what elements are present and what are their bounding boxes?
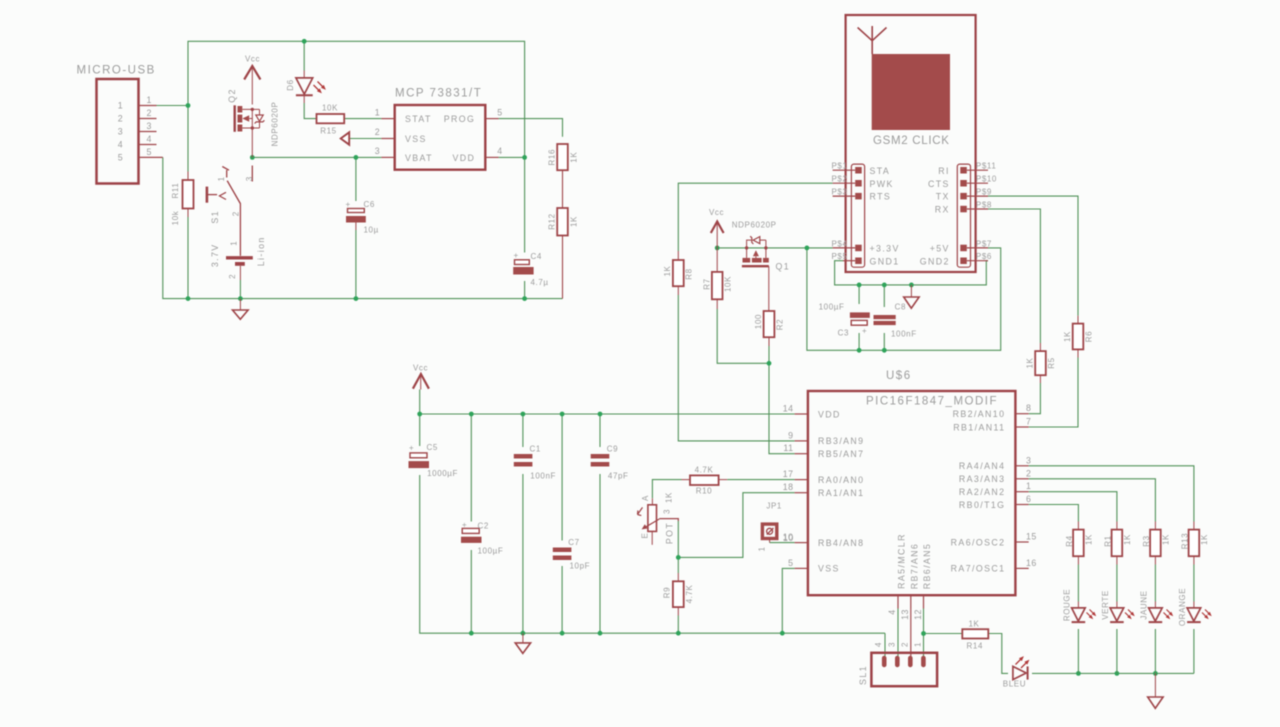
wire VSS arrow to MCP pin2 <box>349 138 381 140</box>
pin 14 VDD <box>795 413 808 415</box>
pin stub P$5 <box>843 260 855 262</box>
svg-text:11: 11 <box>783 443 793 453</box>
wire R4 to ROUGE <box>1077 565 1079 602</box>
svg-text:RB7/AN6: RB7/AN6 <box>910 543 920 589</box>
node junction R11 bottom <box>186 296 191 301</box>
LED D6 <box>286 71 326 104</box>
LED ROUGE <box>1063 589 1097 622</box>
svg-text:3: 3 <box>118 127 123 137</box>
resistor R7 10K <box>703 248 733 309</box>
capacitor C5 1000uF <box>409 443 459 478</box>
svg-text:MCP 73831/T: MCP 73831/T <box>395 88 482 100</box>
wire R9 to rail <box>677 616 679 634</box>
wire C2 lower lead <box>470 550 472 633</box>
node junction gnd symbol <box>909 283 914 288</box>
svg-text:100nF: 100nF <box>891 329 917 338</box>
svg-text:2: 2 <box>231 211 240 216</box>
svg-text:10k: 10k <box>171 210 180 225</box>
pin 6 RB0/T1G <box>1015 504 1028 506</box>
node junction rail VERTE <box>1115 671 1120 676</box>
svg-text:C9: C9 <box>607 445 618 454</box>
svg-text:VDD: VDD <box>453 153 476 163</box>
wire PWK net to PIC RB3 <box>678 183 832 251</box>
svg-text:P$1: P$1 <box>831 162 847 171</box>
connector right header <box>957 164 970 267</box>
svg-text:100µF: 100µF <box>819 302 845 311</box>
svg-text:RB0/T1G: RB0/T1G <box>959 500 1005 510</box>
LED JAUNE <box>1140 590 1174 622</box>
wire pin3 to R13 <box>1029 466 1194 522</box>
wire node to R9 <box>677 557 679 573</box>
pin 16 RA7/OSC1 <box>1015 567 1028 569</box>
resistor R9 4.7K <box>663 573 694 616</box>
wire R6 to PIC pin7 <box>1029 358 1078 428</box>
svg-text:RA0/AN0: RA0/AN0 <box>818 475 864 485</box>
resistor R2 100 <box>754 311 785 346</box>
svg-text:R4: R4 <box>1065 535 1074 546</box>
resistor R5 1K <box>1026 343 1057 383</box>
svg-text:15: 15 <box>1026 532 1037 542</box>
svg-text:CTS: CTS <box>928 179 950 189</box>
pin 1 RA2/AN2 <box>1015 491 1028 493</box>
pin stub P$6 <box>967 260 988 262</box>
pin 8 RB2/AN10 <box>1015 413 1028 415</box>
svg-text:1K: 1K <box>1123 534 1132 545</box>
svg-text:1K: 1K <box>570 216 579 227</box>
svg-text:PIC16F1847_MODIF: PIC16F1847_MODIF <box>866 396 998 408</box>
resistor R12 1K <box>548 200 579 245</box>
svg-text:1K: 1K <box>1063 331 1072 342</box>
resistor R10 4.7K <box>682 466 728 496</box>
svg-text:PROG: PROG <box>444 114 476 124</box>
svg-text:1K: 1K <box>969 620 980 629</box>
wire rail corner to SL1 pad4 <box>884 633 886 656</box>
svg-text:R5: R5 <box>1047 357 1056 368</box>
svg-text:1000µF: 1000µF <box>427 469 458 478</box>
svg-text:4: 4 <box>497 146 502 156</box>
power Vcc top-left <box>244 55 260 105</box>
svg-text:12: 12 <box>913 609 923 620</box>
node junction grail R9 <box>676 631 681 636</box>
svg-text:3: 3 <box>663 509 672 514</box>
wire wiper node to pin18 <box>678 493 794 558</box>
svg-text:10: 10 <box>783 532 794 542</box>
wire C3 bottom lead <box>858 333 860 350</box>
svg-text:Vcc: Vcc <box>709 208 724 217</box>
svg-text:4: 4 <box>118 140 123 150</box>
pin stub P$9 <box>967 195 988 197</box>
pin 5 VSS <box>795 567 808 569</box>
svg-text:9: 9 <box>788 430 793 440</box>
wire R16-R12 link <box>562 170 564 208</box>
node junction pwr rail C8 <box>882 348 887 353</box>
wire R11 lower <box>187 217 189 299</box>
svg-text:10K: 10K <box>724 276 733 292</box>
ground sym GSM <box>904 285 919 308</box>
node junction grail C9 <box>598 631 603 636</box>
IC U2 MCP 73831/T <box>375 88 503 170</box>
svg-text:R13: R13 <box>1181 533 1190 549</box>
pin 18 RA1/AN1 <box>795 492 808 494</box>
pin stub P$10 <box>967 182 988 184</box>
node junction grail C1 <box>521 631 526 636</box>
wire C2 upper lead <box>470 414 472 522</box>
resistor R6 1K <box>1063 316 1094 358</box>
node junction rail C1 <box>521 412 526 417</box>
svg-text:1K: 1K <box>1161 534 1170 545</box>
svg-text:+: + <box>409 444 414 453</box>
node junction rail ROUGE <box>1076 671 1081 676</box>
svg-text:STAT: STAT <box>405 114 432 124</box>
svg-text:3: 3 <box>147 121 152 131</box>
svg-text:RI: RI <box>938 166 950 176</box>
resistor R4 1K <box>1065 522 1093 565</box>
node junction Q2 drain VBAT <box>250 155 255 160</box>
svg-text:3: 3 <box>245 176 254 181</box>
resistor R1 1K <box>1104 522 1132 565</box>
svg-text:3.7V: 3.7V <box>210 243 220 267</box>
svg-text:100µF: 100µF <box>478 547 504 556</box>
transistor Q2 NDP6020P <box>227 88 280 157</box>
svg-text:4.7K: 4.7K <box>695 466 714 475</box>
LED BLEU <box>1003 656 1030 688</box>
svg-text:47pF: 47pF <box>608 472 629 481</box>
pin stub P$3 <box>833 195 856 197</box>
svg-text:GND2: GND2 <box>920 256 950 266</box>
wire R10 to POT top <box>652 480 681 499</box>
wire LED cathode rail <box>1078 672 1194 674</box>
capacitor C9 47pF <box>591 445 629 481</box>
svg-text:RB5/AN7: RB5/AN7 <box>818 449 864 459</box>
svg-text:+: + <box>346 200 351 209</box>
wire C8 top lead <box>883 285 885 307</box>
svg-text:+5V: +5V <box>930 244 950 254</box>
svg-text:4: 4 <box>147 134 152 144</box>
wire VSS to rail <box>782 568 794 633</box>
capacitor C2 100uF <box>461 521 503 556</box>
LED ORANGE <box>1178 588 1212 626</box>
svg-text:TX: TX <box>936 192 950 202</box>
transistor Q1 NDP6020P <box>732 221 790 312</box>
svg-text:C1: C1 <box>530 445 541 454</box>
wire R5 to PIC pin8 <box>1029 383 1041 414</box>
wire Vcc to +3.3V rail <box>717 247 832 249</box>
svg-text:R2: R2 <box>776 319 785 330</box>
module GSM2 CLICK box <box>846 15 976 272</box>
pin 7 RB1/AN11 <box>1015 426 1028 428</box>
svg-text:8: 8 <box>1026 403 1031 413</box>
svg-text:Li-ion: Li-ion <box>256 236 266 266</box>
svg-text:RA5/MCLR: RA5/MCLR <box>897 533 907 589</box>
svg-text:P$9: P$9 <box>976 188 992 197</box>
svg-text:RA6/OSC2: RA6/OSC2 <box>951 537 1006 547</box>
connector SL1 <box>858 642 937 686</box>
svg-text:7: 7 <box>1026 417 1031 427</box>
battery 3.7V Li-ion <box>210 236 266 280</box>
wire GND1 path <box>835 261 988 285</box>
svg-text:+3.3V: +3.3V <box>870 244 900 254</box>
pin 11 RB5/AN7 <box>795 453 808 455</box>
wire D6 top branch <box>303 41 305 70</box>
svg-text:1: 1 <box>118 101 123 111</box>
svg-text:C2: C2 <box>478 522 489 531</box>
svg-text:P$2: P$2 <box>831 175 847 184</box>
wire RX to R5 <box>988 209 1040 343</box>
svg-text:R16: R16 <box>548 149 557 165</box>
LED VERTE <box>1101 590 1135 622</box>
wire battery to rail <box>239 280 241 299</box>
svg-text:ROUGE: ROUGE <box>1063 589 1072 621</box>
wire pin1 to R1 <box>1029 492 1117 522</box>
svg-text:RA2/AN2: RA2/AN2 <box>959 487 1005 497</box>
svg-text:4: 4 <box>874 642 883 647</box>
node junction grail C2 <box>469 631 474 636</box>
svg-text:5: 5 <box>788 558 793 568</box>
wire top rail Vcc-charger <box>188 41 525 157</box>
wire VERTE to rail <box>1116 629 1118 673</box>
pin stub P$11 <box>967 169 988 171</box>
svg-text:Q2: Q2 <box>227 88 237 103</box>
svg-text:16: 16 <box>1026 558 1037 568</box>
svg-text:14: 14 <box>783 404 794 414</box>
svg-text:SL1: SL1 <box>858 665 868 685</box>
pin 9 RB3/AN9 <box>795 440 808 442</box>
connector left header <box>851 164 864 267</box>
resistor R3 1K <box>1142 522 1170 565</box>
ground sym caps rail <box>515 633 530 653</box>
node junction C4 top <box>522 155 527 160</box>
node junction gnd rail C3 <box>857 283 862 288</box>
svg-text:1: 1 <box>758 546 767 551</box>
svg-text:E: E <box>641 533 650 539</box>
capacitor C8 100nF <box>874 303 917 339</box>
capacitor C6 10u <box>346 200 379 235</box>
svg-text:Vcc: Vcc <box>413 364 428 373</box>
svg-text:JP1: JP1 <box>766 501 782 510</box>
wire PIC pin12 to SL1 pad1 and R14 <box>923 609 925 657</box>
node junction 3V3 drop <box>805 246 810 251</box>
wire MCP pin4 to C4 branch <box>499 156 525 158</box>
svg-text:1K: 1K <box>1084 534 1093 545</box>
wire VDD top rail <box>420 413 795 415</box>
svg-text:R6: R6 <box>1085 331 1094 342</box>
IC U$6 PIC16F1847 <box>783 370 1037 620</box>
wire TX to R6 <box>988 196 1078 316</box>
wire ROUGE to rail <box>1077 629 1079 673</box>
wire PIC pin13 to SL1 pad2 <box>910 609 912 657</box>
svg-text:RB2/AN10: RB2/AN10 <box>953 409 1006 419</box>
wire MCP pin5 to R16 <box>499 119 563 137</box>
wire R1 to VERTE <box>1116 565 1118 602</box>
node junction USB pin1 <box>186 103 191 108</box>
wire D6 to R15 <box>304 103 316 119</box>
wire ORANGE to rail <box>1193 629 1195 673</box>
potentiometer POT 1K <box>638 492 679 545</box>
wire pin2 to R3 <box>1029 479 1156 522</box>
svg-text:R14: R14 <box>967 642 983 651</box>
pin 4 RA5/MCLR bottom <box>897 595 899 608</box>
svg-text:ORANGE: ORANGE <box>1178 588 1187 626</box>
resistor R15 10K <box>317 104 345 136</box>
svg-text:R11: R11 <box>171 183 180 199</box>
antenna <box>858 26 887 54</box>
node junction pwr rail C3 <box>857 348 862 353</box>
wire POT wiper node <box>677 521 679 557</box>
pin stub P$8 <box>967 208 988 210</box>
svg-text:MICRO-USB: MICRO-USB <box>77 65 156 77</box>
pin 3 RA4/AN4 <box>1015 465 1028 467</box>
svg-text:C7: C7 <box>568 538 579 547</box>
capacitor C4 4.7u <box>513 251 548 287</box>
wire C9 lower lead <box>599 474 601 633</box>
wire PIC pin4 to SL1 pad3 <box>897 609 899 657</box>
svg-text:P$3: P$3 <box>831 188 847 197</box>
svg-text:R1: R1 <box>1104 535 1113 546</box>
wire C3 top lead <box>858 285 860 304</box>
svg-text:P$6: P$6 <box>976 252 992 261</box>
node junction rail C7 <box>560 412 565 417</box>
node junction D6 top <box>302 39 307 44</box>
svg-text:S1: S1 <box>210 210 220 224</box>
svg-text:C6: C6 <box>364 200 375 209</box>
resistor R16 1K <box>548 144 579 179</box>
pin stub P$1 <box>833 169 856 171</box>
resistor R13 1K <box>1181 522 1210 565</box>
svg-text:2: 2 <box>228 274 237 279</box>
power Vcc GSM <box>709 208 724 248</box>
svg-text:C3: C3 <box>838 329 849 338</box>
svg-text:Vcc: Vcc <box>245 55 260 64</box>
svg-text:PWK: PWK <box>870 179 894 189</box>
wire Vcc3 left column upper <box>419 390 421 447</box>
node junction rail C9 <box>598 412 603 417</box>
node junction grail VSS <box>780 631 785 636</box>
svg-text:2: 2 <box>375 127 380 137</box>
svg-text:R10: R10 <box>696 487 712 496</box>
capacitor C7 10pF <box>553 538 590 571</box>
svg-text:1: 1 <box>147 95 152 105</box>
svg-text:C4: C4 <box>531 252 542 261</box>
svg-text:JAUNE: JAUNE <box>1140 590 1149 619</box>
svg-text:RA1/AN1: RA1/AN1 <box>818 488 864 498</box>
svg-text:RTS: RTS <box>870 192 892 202</box>
wire C4 lower lead <box>524 281 526 299</box>
svg-text:6: 6 <box>1026 494 1031 504</box>
svg-text:NDP6020P: NDP6020P <box>732 221 777 230</box>
svg-text:RA4/AN4: RA4/AN4 <box>959 461 1005 471</box>
node junction rail C2 <box>469 412 474 417</box>
svg-text:3: 3 <box>375 146 380 156</box>
svg-text:P$10: P$10 <box>976 175 997 184</box>
wire JP1 to pin10 <box>770 542 795 544</box>
svg-text:1: 1 <box>217 176 226 181</box>
resistor R11 10k <box>171 172 194 226</box>
svg-text:GSM2 CLICK: GSM2 CLICK <box>873 135 950 147</box>
wire C1 upper lead <box>522 414 524 447</box>
svg-text:P$4: P$4 <box>831 239 847 248</box>
svg-text:100nF: 100nF <box>530 472 556 481</box>
resistor R8 1K <box>663 251 694 295</box>
svg-text:+: + <box>514 251 519 260</box>
wire JAUNE to rail <box>1154 629 1156 673</box>
svg-text:18: 18 <box>783 482 794 492</box>
svg-text:5: 5 <box>118 153 123 163</box>
connector MICRO-USB <box>77 65 163 184</box>
svg-text:2: 2 <box>900 642 909 647</box>
pin 12 RB6/AN5 bottom <box>923 595 925 608</box>
svg-text:RB4/AN8: RB4/AN8 <box>818 538 864 548</box>
svg-text:R7: R7 <box>703 278 712 289</box>
wire BLEU to LED rail <box>1032 672 1078 674</box>
wire R7 bottom link <box>717 309 769 363</box>
svg-text:VSS: VSS <box>405 134 427 144</box>
svg-text:5: 5 <box>497 108 502 118</box>
svg-text:1: 1 <box>375 108 380 118</box>
wire gate node to PIC RB5 <box>769 363 795 453</box>
wire C4 upper lead <box>524 157 526 252</box>
svg-text:2: 2 <box>147 108 152 118</box>
svg-text:R12: R12 <box>548 213 557 229</box>
svg-text:NDP6020P: NDP6020P <box>271 102 280 147</box>
node junction C6 bottom <box>354 296 359 301</box>
svg-text:P$5: P$5 <box>831 252 847 261</box>
svg-text:10pF: 10pF <box>570 562 591 571</box>
svg-text:1K: 1K <box>1200 534 1209 545</box>
svg-text:100: 100 <box>754 314 763 329</box>
wire C8 bottom lead <box>883 333 885 350</box>
wire R10 to pin17 <box>727 479 794 481</box>
svg-text:U$6: U$6 <box>886 370 912 382</box>
node junction battery ground <box>238 296 243 301</box>
wire R14 to BLEU <box>988 634 1008 674</box>
svg-text:2: 2 <box>1026 468 1031 478</box>
svg-text:VDD: VDD <box>818 409 841 419</box>
pin stub P$4 <box>833 247 856 249</box>
svg-text:RB1/AN11: RB1/AN11 <box>953 422 1005 432</box>
svg-text:1: 1 <box>230 241 239 246</box>
pin labels right <box>920 162 997 267</box>
wire C7 lower lead <box>561 566 563 633</box>
svg-text:10K: 10K <box>322 104 338 113</box>
svg-text:+: + <box>862 327 867 336</box>
pin2 VSS arrow <box>341 132 350 144</box>
svg-text:4: 4 <box>887 609 897 614</box>
wire R3 to JAUNE <box>1154 565 1156 602</box>
node junction rail Vcc <box>417 412 422 417</box>
svg-text:RA3/AN3: RA3/AN3 <box>959 474 1005 484</box>
svg-text:3: 3 <box>1026 455 1031 465</box>
svg-text:R15: R15 <box>320 127 336 136</box>
node junction gnd rail C8 <box>882 283 887 288</box>
svg-text:BLEU: BLEU <box>1003 680 1026 689</box>
pin labels left <box>831 162 899 267</box>
node junction C4 bottom <box>522 296 527 301</box>
svg-text:1K: 1K <box>1026 357 1035 368</box>
svg-text:C5: C5 <box>427 443 438 452</box>
svg-text:5: 5 <box>147 147 152 157</box>
svg-text:P$11: P$11 <box>976 162 997 171</box>
connector JP1 <box>758 501 794 551</box>
ground sym below battery <box>233 299 249 320</box>
wire C1 lower lead <box>522 474 524 633</box>
wire bottom ground rail <box>188 298 563 300</box>
pin stub P$2 <box>833 182 856 184</box>
svg-text:VBAT: VBAT <box>405 153 433 163</box>
svg-text:D6: D6 <box>286 79 295 90</box>
wire USB pin5 down to ground rail <box>163 157 188 298</box>
wire junction to R14 <box>924 633 963 635</box>
svg-text:4.7K: 4.7K <box>685 585 694 604</box>
